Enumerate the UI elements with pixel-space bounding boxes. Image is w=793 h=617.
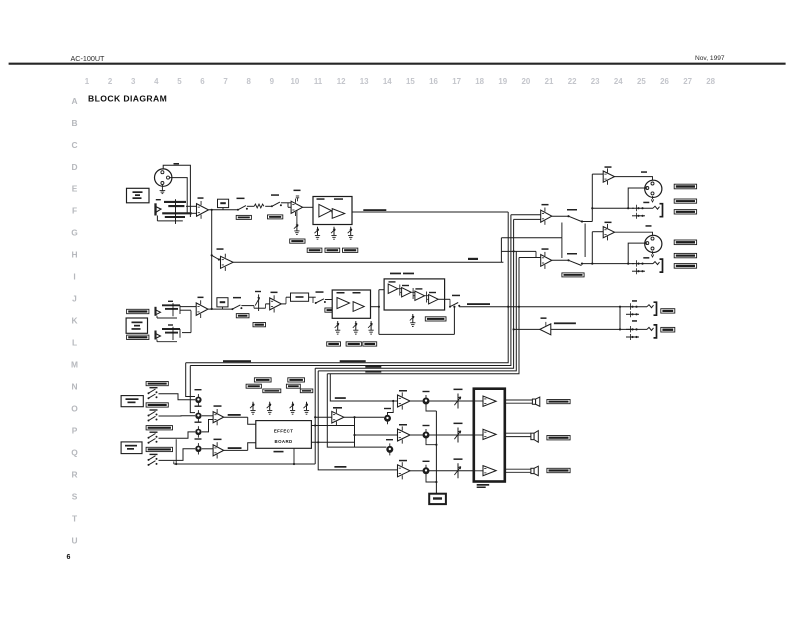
wire pot bottoms to headphone box 2 bbox=[426, 439, 436, 445]
svg-text:R: R bbox=[71, 470, 77, 480]
label XLR4 bbox=[646, 225, 652, 227]
speaker SP1 bbox=[532, 397, 539, 406]
label box S1 bbox=[236, 215, 251, 219]
wire gang switch link right bbox=[584, 224, 586, 258]
wire bus v2 bbox=[190, 215, 511, 366]
node jack line CH1 bbox=[627, 207, 629, 209]
wire line A bottom bbox=[174, 463, 315, 465]
wire reverb feedback loop bottom bbox=[379, 333, 455, 335]
svg-text:17: 17 bbox=[452, 77, 461, 86]
wire send jack link bbox=[619, 307, 621, 330]
svg-text:S: S bbox=[72, 492, 78, 502]
wire pot bottoms to headphone box 3 bbox=[426, 474, 436, 482]
svg-text:15: 15 bbox=[406, 77, 415, 86]
label box S8 bbox=[562, 273, 584, 277]
label box fx 3 bbox=[246, 384, 261, 388]
label jack J3 bbox=[168, 324, 173, 325]
op-amp U7 tone CH2 bbox=[337, 298, 350, 309]
wire U6 to MID box bbox=[281, 303, 286, 305]
op-amp U17 mix amp B bbox=[213, 442, 224, 458]
wire TX1 input a bbox=[511, 214, 541, 216]
svg-text:H: H bbox=[71, 250, 77, 260]
svg-text:12: 12 bbox=[337, 77, 346, 86]
wire VR5 to U6 bbox=[262, 307, 266, 309]
label box out 1 bbox=[674, 184, 696, 189]
wire bus drop mid 2 bbox=[318, 371, 397, 470]
label U1 bbox=[198, 197, 204, 199]
svg-text:28: 28 bbox=[706, 77, 715, 86]
wire U1 output bbox=[209, 209, 238, 211]
potentiometer VR8 bbox=[368, 321, 374, 334]
connector XLR3 balanced out CH1 bbox=[645, 180, 662, 197]
label jack out CH1 bbox=[643, 202, 649, 204]
label U2 bbox=[294, 190, 301, 192]
label S6 bbox=[452, 295, 460, 297]
label reverb box bbox=[390, 273, 401, 275]
wire out line CH2 bbox=[582, 263, 634, 265]
svg-text:P: P bbox=[72, 426, 78, 436]
label box out 5 bbox=[674, 253, 696, 257]
op-amp U5 CH2 preamp bbox=[196, 300, 208, 318]
wire U18 input bbox=[315, 416, 332, 418]
op-amp PA1 bbox=[483, 396, 496, 406]
wire effect return line bbox=[311, 425, 354, 427]
wire S11 to pot3 bbox=[159, 432, 196, 438]
label aux line bbox=[335, 397, 346, 399]
svg-text:A: A bbox=[71, 96, 77, 106]
label VR19 bbox=[386, 439, 393, 440]
wire U14 to XLR4 bbox=[615, 232, 653, 237]
op-amp U3 tone CH1 bbox=[319, 204, 332, 217]
wire row3 b bbox=[429, 470, 474, 472]
label VR22 bbox=[423, 461, 430, 462]
wire row2 a bbox=[410, 434, 423, 436]
wire gang switch link left bbox=[561, 238, 563, 258]
wire row2 b bbox=[429, 434, 474, 436]
label K2 bbox=[454, 423, 463, 425]
wire U2 to tone block bbox=[303, 206, 313, 208]
wire reverb out to S6 bbox=[438, 298, 450, 300]
node out bus CH1 bbox=[591, 207, 593, 209]
svg-text:BOARD: BOARD bbox=[275, 439, 293, 444]
wire U17 out to effect board bbox=[224, 449, 248, 451]
svg-text:I: I bbox=[73, 272, 75, 282]
box EFFECT BOARD bbox=[256, 421, 312, 449]
svg-text:20: 20 bbox=[522, 77, 531, 86]
capacitor C2 reverb stage 1 bbox=[399, 285, 401, 296]
label box fx 4 bbox=[286, 384, 300, 388]
label XLR1 bbox=[174, 163, 180, 165]
svg-text:21: 21 bbox=[545, 77, 554, 86]
svg-text:AC-100UT: AC-100UT bbox=[71, 54, 106, 63]
switch S11 mixer in 3 bbox=[148, 434, 158, 439]
speaker SP3 bbox=[531, 466, 538, 476]
wire bus drop left 1 bbox=[186, 363, 195, 397]
potentiometer VR19 fx return level bbox=[386, 443, 393, 455]
svg-text:9: 9 bbox=[270, 77, 275, 86]
label U5 bbox=[198, 297, 204, 299]
potentiometer VR12 mix 3 bbox=[195, 426, 201, 437]
label TX1 bbox=[542, 204, 549, 206]
label U9 bbox=[389, 281, 396, 282]
label VR12 bbox=[195, 422, 202, 423]
capacitor C3 reverb stage 2 bbox=[412, 288, 414, 299]
header rule bbox=[9, 63, 786, 65]
label box S5 bbox=[325, 308, 341, 312]
box AUX IN 1 bbox=[121, 396, 143, 407]
svg-text:U: U bbox=[71, 536, 77, 546]
wire U5 output bbox=[208, 308, 232, 310]
label box VR9 bbox=[425, 317, 446, 321]
potentiometer VR17 fx bbox=[304, 402, 310, 415]
svg-text:B: B bbox=[71, 118, 77, 128]
label U19 bbox=[399, 390, 407, 392]
potentiometer VR21 row2 level bbox=[423, 429, 430, 441]
wire XLR1 pin2 to preamp bbox=[170, 178, 188, 214]
label K1 bbox=[454, 389, 463, 391]
label U20 bbox=[399, 424, 407, 426]
wire out line CH1 bbox=[592, 207, 634, 209]
box reverb drive CH2 bbox=[384, 279, 445, 310]
wire S4 to VR5 bbox=[241, 305, 254, 307]
svg-text:25: 25 bbox=[637, 77, 646, 86]
potentiometer VR10 mix 1 bbox=[195, 394, 201, 405]
label jack J6 bbox=[632, 300, 637, 302]
label box MIC LINE IN bbox=[127, 188, 150, 203]
wire TX2 input bbox=[519, 257, 541, 259]
relay contact K3 row3 bbox=[454, 463, 460, 478]
op-amp U13 balanced driver CH1 bbox=[603, 168, 614, 184]
potentiometer VR11 mix 2 bbox=[195, 410, 201, 421]
label box return bbox=[661, 327, 675, 332]
label box SP2 bbox=[547, 436, 570, 440]
svg-text:D: D bbox=[71, 162, 77, 172]
label box SP3 bbox=[547, 468, 570, 472]
op-amp U6 CH2 gain bbox=[270, 295, 282, 312]
label tone box a bbox=[317, 198, 325, 200]
wire R1 to S2 bbox=[265, 205, 272, 207]
wire CH1 send line bbox=[233, 261, 503, 263]
wire reverb internal 2 bbox=[411, 291, 415, 293]
label box out 2 bbox=[674, 199, 696, 203]
speaker SP2 bbox=[531, 431, 538, 443]
label VR18 bbox=[384, 408, 391, 409]
label box mixer 4 bbox=[146, 447, 172, 451]
label CH-1 on send line bbox=[468, 258, 478, 260]
wire S1 to R1 bbox=[247, 205, 254, 207]
wire tone CH2 out bbox=[371, 306, 379, 308]
wire riser into reverb box bbox=[378, 290, 380, 307]
label XLR3 bbox=[641, 171, 647, 173]
switch S1 CH1 bbox=[237, 206, 248, 211]
label input jack 1 bbox=[156, 199, 161, 200]
op-amp TX1 line out driver CH1 bbox=[541, 208, 552, 225]
svg-text:16: 16 bbox=[429, 77, 438, 86]
switch S10 mixer in 2 bbox=[148, 411, 158, 416]
op-amp PA3 bbox=[483, 466, 496, 476]
svg-text:27: 27 bbox=[683, 77, 692, 86]
switch S8 out CH2 bbox=[567, 259, 569, 261]
svg-text:3: 3 bbox=[131, 77, 136, 86]
svg-text:G: G bbox=[71, 228, 78, 238]
jack J4 line out CH1 bbox=[632, 204, 663, 219]
wire S12 to pot4 bbox=[159, 449, 196, 461]
label VR13 bbox=[195, 438, 202, 439]
op-amp U1 CH1 preamp bbox=[197, 201, 209, 219]
label box mixer 2 bbox=[146, 403, 168, 407]
potentiometer VR3 mid bbox=[331, 227, 337, 240]
wire pot bottoms to headphone box 1 bbox=[426, 405, 436, 412]
op-amp U18 reverb return bbox=[332, 409, 344, 426]
potentiometer VR22 row3 level bbox=[423, 465, 430, 477]
label box fx 5 bbox=[263, 389, 281, 393]
svg-text:23: 23 bbox=[591, 77, 600, 86]
wire bus v3 bbox=[315, 219, 513, 368]
wire U18 out bbox=[344, 416, 384, 418]
label U21 bbox=[399, 460, 407, 462]
box PAD CH2 bbox=[217, 298, 228, 307]
wire effect board bottom drop bbox=[293, 448, 295, 464]
wire S12 drop bbox=[173, 461, 175, 464]
label box VR3 bbox=[325, 248, 340, 252]
capacitor C1 above U2 bbox=[296, 195, 299, 197]
grid row letters A-U bbox=[71, 96, 78, 546]
svg-text:4: 4 bbox=[154, 77, 159, 86]
potentiometer VR14 fx bbox=[250, 402, 256, 415]
wire VR18 wiper to row1 bbox=[388, 401, 394, 415]
jack J3 CH2 input B bbox=[156, 327, 181, 342]
wire XLR1 pin1 to preamp bbox=[163, 165, 190, 217]
label below effect board bbox=[274, 451, 284, 453]
ground XLR3 bbox=[652, 196, 654, 199]
label tone box CH2 b bbox=[353, 292, 361, 294]
wire pot4 to U17 bbox=[202, 448, 213, 450]
potentiometer VR18 return level bbox=[384, 412, 391, 424]
label U6 bbox=[271, 292, 278, 294]
potentiometer VR1 below U2 bbox=[296, 211, 298, 223]
node return on bus bbox=[513, 328, 515, 330]
op-amp U22 CH1 send driver bbox=[221, 254, 234, 271]
wire TX1 to switch bbox=[552, 215, 568, 217]
label U15 text bbox=[554, 322, 576, 324]
label reverb bus left bbox=[223, 360, 251, 362]
label box out 4 bbox=[674, 240, 696, 245]
op-amp U14 balanced driver CH2 bbox=[603, 224, 614, 240]
op-amp U10 reverb bbox=[402, 288, 412, 297]
svg-text:2: 2 bbox=[108, 77, 113, 86]
label tone box b bbox=[334, 198, 343, 200]
grid column numbers 1-28 bbox=[85, 77, 716, 86]
wire bus v5 bbox=[327, 258, 519, 374]
label bus ch1 bbox=[365, 366, 381, 368]
label ML1 main line bbox=[363, 209, 386, 211]
svg-text:13: 13 bbox=[360, 77, 369, 86]
svg-text:E: E bbox=[72, 184, 78, 194]
svg-text:18: 18 bbox=[475, 77, 484, 86]
jack J7 return bbox=[626, 325, 657, 340]
op-amp U12 reverb bbox=[429, 295, 439, 304]
wire jack to op-amp U1 inputs bbox=[186, 205, 197, 207]
wire CH1 to CH2 vertical bbox=[211, 210, 213, 309]
svg-text:M: M bbox=[71, 360, 78, 370]
label VR20 bbox=[423, 391, 430, 392]
wire bus v1 bbox=[186, 212, 509, 363]
node jack line CH2 bbox=[627, 263, 629, 265]
label ML2 bbox=[467, 303, 490, 305]
label box VR4 bbox=[343, 248, 358, 252]
label VR10 bbox=[195, 389, 202, 390]
switch S7 out CH1 bbox=[567, 215, 569, 217]
ground XLR1 pin3 bbox=[161, 185, 163, 188]
label U17 bbox=[214, 439, 222, 441]
svg-text:L: L bbox=[72, 338, 77, 348]
switch S4 CH2 bbox=[231, 305, 242, 310]
label U16 bbox=[214, 405, 222, 407]
svg-text:C: C bbox=[71, 140, 77, 150]
potentiometer VR13 mix 4 bbox=[195, 443, 201, 454]
wire TX2 to switch bbox=[552, 259, 568, 261]
relay contact K2 row2 bbox=[454, 428, 460, 443]
wire CH1 send riser bbox=[500, 238, 502, 262]
svg-text:8: 8 bbox=[247, 77, 252, 86]
node bus junction ML2 bbox=[518, 306, 520, 308]
label K3 bbox=[454, 458, 463, 460]
label U18 bbox=[333, 407, 342, 409]
op-amp U16 mix amp A bbox=[213, 409, 224, 425]
label jack J2 bbox=[168, 301, 173, 302]
wire S5 to tone box CH2 bbox=[325, 299, 332, 301]
svg-text:K: K bbox=[71, 316, 77, 326]
svg-text:BLOCK DIAGRAM: BLOCK DIAGRAM bbox=[88, 94, 167, 104]
label box VR5 bbox=[253, 323, 266, 327]
op-amp U2 CH1 gain bbox=[291, 199, 303, 216]
label box fx 1 bbox=[254, 378, 271, 382]
potentiometer VR16 fx bbox=[290, 402, 296, 415]
potentiometer VR5 CH2 volume bbox=[258, 294, 260, 311]
svg-text:J: J bbox=[72, 294, 77, 304]
wire ML1 main CH1 line to bus bbox=[352, 211, 508, 213]
op-amp TX2 line out driver CH2 bbox=[541, 252, 552, 269]
label jack out CH2 bbox=[643, 257, 649, 259]
node send jack tap bbox=[619, 306, 621, 308]
svg-text:22: 22 bbox=[568, 77, 577, 86]
wire row3 a bbox=[410, 470, 423, 472]
node out bus CH2 bbox=[591, 263, 593, 265]
wire S9 to pot1 bbox=[159, 394, 196, 400]
wire pa2 in bbox=[474, 434, 483, 436]
label U15 bbox=[541, 317, 547, 319]
ground jack J1 bbox=[175, 223, 177, 225]
label VR11 bbox=[195, 406, 202, 407]
wire CH1 send to TX2 bbox=[501, 250, 536, 252]
wire CH2 aux line to gang switch bbox=[501, 237, 562, 239]
node CH2 junction bbox=[211, 308, 213, 310]
wire S7 to vertical bbox=[582, 221, 592, 223]
op-amp U11 reverb bbox=[415, 291, 425, 300]
wire reverb feedback loop down bbox=[453, 307, 455, 335]
wire bus drop mid 1 bbox=[314, 368, 316, 464]
wire effect out line bbox=[311, 441, 354, 443]
connector XLR1 mic input bbox=[155, 169, 172, 186]
label box VR6 bbox=[327, 342, 341, 346]
jack J1 input pair CH1 bbox=[156, 199, 192, 222]
label box VR8 bbox=[363, 342, 377, 346]
label box fx 6 bbox=[300, 389, 313, 393]
wire return line right bbox=[551, 328, 634, 330]
label U10 bbox=[402, 285, 409, 286]
capacitor C4 reverb stage 3 bbox=[426, 292, 428, 303]
label box mixer 3 bbox=[146, 426, 172, 430]
switch S2 CH1 bbox=[271, 202, 282, 207]
wire U16 out to effect board bbox=[224, 416, 248, 418]
label box mixer 1 bbox=[146, 382, 168, 386]
svg-text:7: 7 bbox=[223, 77, 228, 86]
wire jacks to op-amp U5 bbox=[180, 306, 196, 308]
op-amp PA2 bbox=[483, 429, 496, 439]
op-amp U20 row2 driver bbox=[398, 426, 411, 443]
connector XLR4 balanced out CH2 bbox=[645, 235, 662, 252]
label S1 bbox=[237, 198, 245, 200]
svg-text:11: 11 bbox=[314, 77, 323, 86]
op-amp U8 tone CH2 bbox=[353, 302, 364, 312]
label U13 bbox=[605, 166, 612, 168]
box tone control CH1 bbox=[313, 197, 352, 225]
box MID shift CH2 bbox=[291, 293, 309, 301]
label S5 bbox=[316, 291, 324, 293]
wire speaker1 pair bbox=[505, 399, 533, 401]
label box S2 bbox=[268, 215, 283, 219]
label box fx 2 bbox=[288, 378, 305, 382]
wire bus v4 bbox=[318, 251, 516, 371]
jack J5 line out CH2 bbox=[632, 259, 663, 274]
wire ML2 main CH2 line bbox=[459, 306, 626, 308]
wire XLR3 pin2 to jack line bbox=[628, 188, 647, 208]
potentiometer VR2 bass bbox=[315, 227, 321, 240]
wire speaker3 pair bbox=[505, 468, 531, 470]
switch S5 CH2 bbox=[315, 299, 326, 304]
label box S4 bbox=[236, 314, 249, 318]
potentiometer VR4 treble bbox=[348, 227, 354, 240]
ground XLR4 bbox=[652, 251, 654, 254]
resistor R1 bbox=[254, 204, 264, 208]
switch S12 mixer in 4 bbox=[148, 456, 158, 461]
wire pa1 in bbox=[474, 400, 483, 402]
label box out 3 bbox=[674, 210, 696, 214]
wire TX1 input b bbox=[514, 218, 541, 220]
label bus ch2 bbox=[365, 371, 381, 373]
label box CH2 input top bbox=[127, 309, 149, 313]
label box VR2 bbox=[307, 248, 322, 252]
svg-text:5: 5 bbox=[177, 77, 182, 86]
svg-text:F: F bbox=[72, 206, 77, 216]
svg-text:1: 1 bbox=[85, 77, 90, 86]
label VR21 bbox=[423, 425, 430, 426]
box tone control CH2 bbox=[332, 290, 370, 318]
label box send bbox=[661, 309, 675, 313]
label TX2 bbox=[542, 248, 549, 250]
wire speaker2 pair bbox=[505, 432, 531, 434]
wire return line left bbox=[514, 328, 540, 330]
switch S9 mixer in 1 bbox=[148, 389, 158, 394]
label S2 bbox=[271, 194, 279, 196]
wire S2 to U2 bbox=[281, 202, 291, 204]
box CH2 INPUT bbox=[126, 318, 147, 333]
label box CH2 input bottom bbox=[127, 335, 149, 339]
potentiometer VR7 bbox=[353, 321, 359, 334]
label box out 6 bbox=[674, 264, 696, 269]
svg-text:14: 14 bbox=[383, 77, 392, 86]
wire pa3 in bbox=[474, 470, 483, 472]
